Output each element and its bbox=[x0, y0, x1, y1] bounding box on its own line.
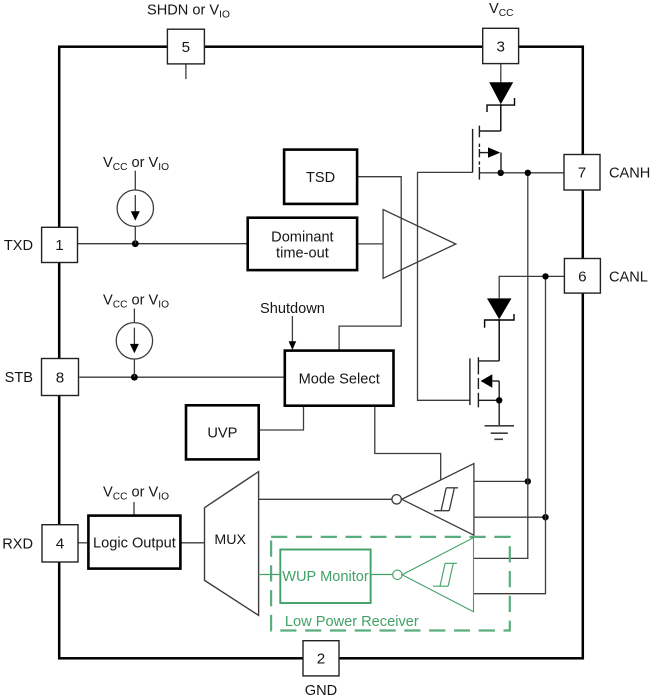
node Q2 source dot bbox=[496, 397, 502, 403]
svg-text:VCC: VCC bbox=[489, 1, 513, 19]
svg-text:STB: STB bbox=[5, 370, 33, 386]
svg-text:Logic Output: Logic Output bbox=[93, 535, 176, 551]
svg-text:5: 5 bbox=[182, 39, 190, 56]
current source I1 (pull-up on TXD) bbox=[117, 171, 153, 244]
wire TXD input net bbox=[78, 243, 248, 245]
wire CANL net bbox=[474, 276, 565, 593]
wire RXD to Logic Output bbox=[78, 542, 88, 544]
svg-text:CANL: CANL bbox=[609, 269, 648, 285]
svg-text:VCC or VIO: VCC or VIO bbox=[103, 155, 169, 173]
svg-text:UVP: UVP bbox=[207, 426, 237, 442]
box TSD bbox=[284, 150, 357, 204]
pin 2 box GND bbox=[303, 641, 339, 676]
svg-text:2: 2 bbox=[317, 651, 325, 668]
pin 6 box CANL bbox=[564, 259, 600, 294]
svg-text:3: 3 bbox=[496, 38, 504, 55]
svg-text:VCC or VIO: VCC or VIO bbox=[103, 485, 169, 503]
transistor Q1 (high-side MOSFET) bbox=[473, 126, 501, 180]
svg-text:RXD: RXD bbox=[2, 537, 33, 553]
svg-text:7: 7 bbox=[578, 164, 586, 181]
op-amp low power receiver (green) bbox=[393, 538, 474, 612]
pin 8 box STB bbox=[42, 359, 79, 396]
box Mode Select bbox=[285, 351, 394, 406]
svg-text:4: 4 bbox=[56, 536, 64, 553]
wire pin 5 stub bbox=[185, 64, 187, 79]
svg-text:SHDN or VIO: SHDN or VIO bbox=[147, 3, 230, 21]
node CANH bus dot bbox=[525, 170, 531, 176]
multiplexer MUX bbox=[205, 472, 259, 616]
wire WUP Monitor to low-power receiver bubble (green) bbox=[371, 574, 393, 576]
pin 4 box RXD bbox=[42, 525, 78, 562]
svg-text:GND: GND bbox=[305, 683, 337, 698]
svg-text:Mode Select: Mode Select bbox=[299, 371, 380, 387]
wire VCC stub into Logic Output bbox=[133, 502, 135, 516]
svg-text:6: 6 bbox=[578, 268, 586, 285]
wire gate drive bus (driver to MOSFET gates) bbox=[418, 172, 473, 400]
ground symbol bbox=[485, 426, 514, 440]
svg-text:VCC or VIO: VCC or VIO bbox=[103, 293, 169, 311]
svg-text:WUP Monitor: WUP Monitor bbox=[282, 569, 369, 585]
box Logic Output bbox=[88, 516, 180, 569]
op-amp driver triangle bbox=[383, 210, 456, 279]
pin 7 box CANH bbox=[564, 155, 600, 191]
diode D1 zener (VCC side) bbox=[487, 82, 515, 131]
node receiver output dot on CANL bus bbox=[542, 514, 548, 520]
svg-text:MUX: MUX bbox=[214, 532, 246, 548]
svg-text:CANH: CANH bbox=[609, 165, 650, 181]
svg-text:Dominant: Dominant bbox=[271, 230, 333, 246]
diode D2 zener (CANL side) bbox=[485, 298, 514, 361]
node CANL junction dot bbox=[542, 273, 548, 279]
svg-text:Shutdown: Shutdown bbox=[260, 301, 325, 317]
wire MUX to WUP Monitor (green) bbox=[259, 574, 281, 576]
op-amp receiver comparator bbox=[392, 464, 474, 536]
svg-text:1: 1 bbox=[55, 237, 63, 254]
pin 1 box TXD bbox=[42, 227, 78, 262]
pin 5 box SHDN bbox=[167, 29, 204, 64]
wire MUX to receiver output bubble bbox=[259, 498, 392, 500]
svg-text:TXD: TXD bbox=[4, 238, 33, 254]
node CANH source dot bbox=[498, 170, 504, 176]
box Low Power Receiver (dashed) bbox=[271, 537, 510, 631]
node TXD junction dot bbox=[132, 240, 139, 247]
transistor Q2 (low-side MOSFET) bbox=[470, 357, 499, 426]
wire Mode Select to UVP bbox=[259, 406, 304, 430]
pin 3 box VCC bbox=[483, 28, 519, 63]
box Dominant time-out bbox=[248, 218, 357, 270]
chip boundary border bbox=[59, 47, 583, 659]
wire Shutdown arrow into Mode Select bbox=[291, 316, 293, 342]
box UVP bbox=[186, 405, 259, 459]
wire CANH net bbox=[474, 173, 564, 559]
node receiver output dot on CANH bus bbox=[525, 478, 531, 484]
node STB junction dot bbox=[131, 374, 138, 381]
svg-text:Low Power Receiver: Low Power Receiver bbox=[285, 614, 419, 630]
wire STB input net bbox=[79, 376, 284, 378]
svg-text:8: 8 bbox=[56, 369, 64, 386]
current source I2 (pull-up on STB) bbox=[116, 309, 152, 378]
wire TSD output to Mode Select bbox=[339, 177, 401, 351]
svg-text:TSD: TSD bbox=[306, 170, 335, 186]
box WUP Monitor bbox=[280, 550, 370, 604]
wire Logic Output to MUX bbox=[180, 542, 204, 544]
wire Mode Select to receiver enable bbox=[375, 406, 441, 480]
wire Dominant time-out output to driver bbox=[357, 243, 383, 245]
svg-text:time-out: time-out bbox=[276, 246, 329, 262]
wire receiver outputs to CANH/CANL buses bbox=[474, 481, 546, 517]
wire pin 3 stub to diode bbox=[500, 64, 502, 83]
